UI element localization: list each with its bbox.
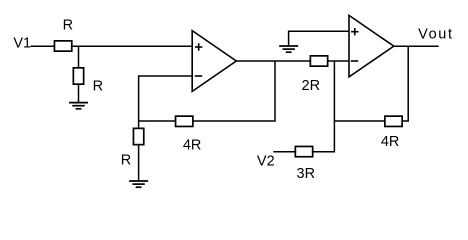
svg-text:2R: 2R — [302, 78, 321, 94]
resistor R2 value R (shunt to ground at node A) — [73, 68, 103, 95]
svg-text:4R: 4R — [183, 137, 202, 153]
resistor R3 value R (node B to ground) — [121, 128, 144, 168]
svg-text:Vout: Vout — [418, 27, 453, 43]
svg-text:V1: V1 — [13, 36, 31, 52]
resistor R4 value 4R (feedback of U1) — [176, 116, 202, 153]
svg-text:R: R — [93, 79, 103, 95]
resistor R6 value 3R (V2 to node D) — [295, 146, 315, 181]
resistor R5 value 2R (U1 output to U2 inverting input) — [302, 56, 328, 94]
wire U2 output to Vout terminal — [394, 45, 439, 47]
svg-text:3R: 3R — [297, 166, 316, 182]
resistor R1 value R (series input resistor from V1) — [54, 18, 73, 52]
op-amp U2 — [349, 15, 394, 77]
wire ground to op-amp U2 non-inverting input — [289, 31, 349, 46]
ground symbol G1 below resistor R2 — [69, 103, 88, 109]
op-amp U1 — [192, 31, 236, 92]
wire node D feedback row right then up to U2 output node E — [334, 46, 408, 121]
ground symbol G3 below resistor R3 — [129, 181, 148, 187]
ground symbol G2 at U2 non-inverting input — [279, 46, 298, 52]
svg-text:R: R — [63, 18, 73, 34]
wire feedback row from node B right then up to U1 output node C — [139, 61, 275, 121]
wire node D down to V2 summing row — [273, 61, 334, 152]
wire U1 output to op-amp U2 inverting input — [236, 60, 349, 62]
svg-text:R: R — [121, 152, 131, 168]
wire junction at node A down to resistor R2 and ground — [78, 46, 80, 102]
wire V1 to op-amp U1 non-inverting input — [31, 45, 193, 47]
svg-text:V2: V2 — [257, 154, 275, 170]
resistor R7 value 4R (feedback of U2) — [381, 116, 402, 150]
svg-text:4R: 4R — [381, 134, 400, 150]
wire op-amp U1 inverting input left then down to feedback node B — [139, 76, 193, 181]
